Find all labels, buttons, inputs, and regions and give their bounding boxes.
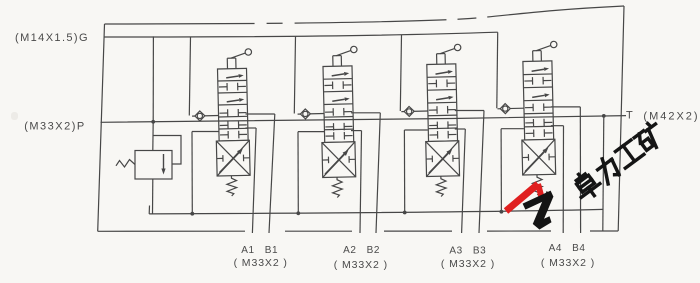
wire: work port B2 xyxy=(351,112,380,114)
position 4 blocked ports, valve 2 xyxy=(325,111,333,113)
relief valve drain to tank rail xyxy=(152,179,154,214)
svg-text:( M33X2 ): ( M33X2 ) xyxy=(541,257,595,269)
wire: work port A1 xyxy=(246,127,257,129)
wire: work port A4 xyxy=(551,125,564,127)
node: P junction at relief riser xyxy=(152,36,154,121)
position 6 blocked ports, valve 1 xyxy=(220,134,228,136)
wire: gallery drop to check valve CV4 xyxy=(496,32,499,108)
throttle/relief element box below spool, valve 3 xyxy=(426,141,460,177)
node: tank rail junction 2 xyxy=(296,211,300,215)
node: tank rail junction 1 xyxy=(190,212,194,216)
hand lever of valve 3 xyxy=(436,54,438,64)
position 3 flow arrow, valve 3 xyxy=(436,98,449,100)
svg-text:A1: A1 xyxy=(241,245,254,256)
spool envelope of valve 3 (6 positions) xyxy=(427,64,458,142)
G gauge gallery rail xyxy=(105,32,498,37)
load check valve CV4 (diamond with ball) xyxy=(497,107,523,110)
svg-text:B3: B3 xyxy=(473,246,486,257)
svg-text:B2: B2 xyxy=(367,245,380,256)
directional valve section V2 xyxy=(296,46,360,198)
position 3 flow arrow, valve 1 xyxy=(227,100,240,102)
return spring of valve 2 xyxy=(332,177,342,198)
hand lever of valve 2 xyxy=(332,56,334,66)
wire: valve 2 return to tank rail xyxy=(298,131,324,133)
return spring of valve 3 xyxy=(436,176,446,197)
enclosure top boundary (long-dashed) xyxy=(105,6,625,24)
directional valve section V1 xyxy=(191,49,255,197)
svg-text:A3: A3 xyxy=(449,246,462,257)
node: tank rail junction 3 xyxy=(403,211,407,215)
enclosure right edge xyxy=(618,6,624,231)
enclosure bottom edge (gaps at work ports) xyxy=(98,230,245,232)
tank return rail xyxy=(148,206,150,214)
position 2 blocked ports, valve 1 xyxy=(219,86,227,88)
svg-text:T: T xyxy=(626,110,633,122)
position 5 blocked ports, valve 3 xyxy=(429,124,437,126)
pressure relief valve RV1 xyxy=(152,122,154,151)
relief valve pilot line xyxy=(153,136,181,165)
load check valve CV1 (diamond with ball) xyxy=(192,114,218,117)
return spring of valve 1 xyxy=(227,176,237,197)
spool envelope of valve 4 (6 positions) xyxy=(523,61,554,140)
throttle/relief element box below spool, valve 4 xyxy=(522,139,556,175)
svg-text:( M33X2 ): ( M33X2 ) xyxy=(334,259,388,271)
throttle/relief element box below spool, valve 2 xyxy=(322,142,356,178)
spool envelope of valve 1 (6 positions) xyxy=(218,68,249,141)
position 1 flow arrow, valve 1 xyxy=(226,76,239,78)
wire: gallery drop to check valve CV1 xyxy=(189,37,190,116)
svg-text:( M33X2 ): ( M33X2 ) xyxy=(234,257,288,269)
svg-text:A2: A2 xyxy=(343,245,356,256)
wire: gallery drop to check valve CV3 xyxy=(400,35,401,111)
position 6 blocked ports, valve 3 xyxy=(429,134,437,136)
hand lever of valve 1 xyxy=(226,58,228,68)
position 5 blocked ports, valve 2 xyxy=(325,126,333,128)
spool envelope of valve 2 (6 positions) xyxy=(323,66,354,143)
node: tank rail joins T port xyxy=(602,114,606,118)
directional valve section V4 xyxy=(496,41,560,196)
wire: valve 1 return to tank rail xyxy=(192,131,219,133)
svg-text:( M33X2 ): ( M33X2 ) xyxy=(441,258,495,270)
position 1 flow arrow, valve 2 xyxy=(332,74,345,76)
load check valve CV2 (diamond with ball) xyxy=(298,112,324,115)
position 2 blocked ports, valve 4 xyxy=(524,80,532,82)
position 5 blocked ports, valve 1 xyxy=(220,124,228,126)
position 3 flow arrow, valve 2 xyxy=(332,99,345,101)
wire: work port A2 xyxy=(351,130,362,132)
svg-text:(M42X2): (M42X2) xyxy=(643,111,699,123)
wire: gallery drop to check valve CV2 xyxy=(294,37,295,114)
svg-text:B4: B4 xyxy=(572,243,585,254)
position 1 flow arrow, valve 4 xyxy=(532,69,545,71)
svg-text:A4: A4 xyxy=(549,243,562,254)
T riser to tank port xyxy=(603,116,604,231)
position 4 blocked ports, valve 1 xyxy=(220,112,228,114)
position 4 blocked ports, valve 4 xyxy=(525,106,533,108)
wire: work port B1 xyxy=(246,113,275,115)
position 6 blocked ports, valve 2 xyxy=(326,135,334,137)
watermark text 卓力工矿 (drawn strokes) xyxy=(569,167,603,202)
throttle/relief element box below spool, valve 1 xyxy=(216,140,250,176)
directional valve section V3 xyxy=(400,44,464,197)
svg-text:B1: B1 xyxy=(265,245,278,256)
return spring of valve 4 xyxy=(532,175,542,196)
position 2 blocked ports, valve 3 xyxy=(428,82,436,84)
wire: work port A3 xyxy=(455,128,466,130)
wire: valve 4 return to tank rail xyxy=(501,128,524,130)
scan artifact: edge smudge xyxy=(11,112,18,120)
wire: valve 3 return to tank rail xyxy=(404,129,427,131)
position 1 flow arrow, valve 3 xyxy=(435,72,448,74)
P open-centre gallery P to T xyxy=(101,116,627,123)
position 5 blocked ports, valve 4 xyxy=(525,122,533,124)
enclosure left edge xyxy=(98,24,105,231)
watermark logo (red/black Z) xyxy=(504,181,540,213)
wire: work port B3 xyxy=(455,110,484,112)
load check valve CV3 (diamond with ball) xyxy=(401,110,427,113)
hand lever of valve 4 xyxy=(532,51,534,61)
position 4 blocked ports, valve 3 xyxy=(429,109,437,111)
svg-text:(M33X2)P: (M33X2)P xyxy=(24,121,86,133)
wire: work port B4 xyxy=(551,106,580,108)
svg-text:(M14X1.5)G: (M14X1.5)G xyxy=(15,32,89,44)
position 2 blocked ports, valve 2 xyxy=(324,84,332,86)
position 6 blocked ports, valve 4 xyxy=(526,132,534,134)
node: tank rail junction 4 xyxy=(500,210,504,214)
position 3 flow arrow, valve 4 xyxy=(532,95,545,97)
